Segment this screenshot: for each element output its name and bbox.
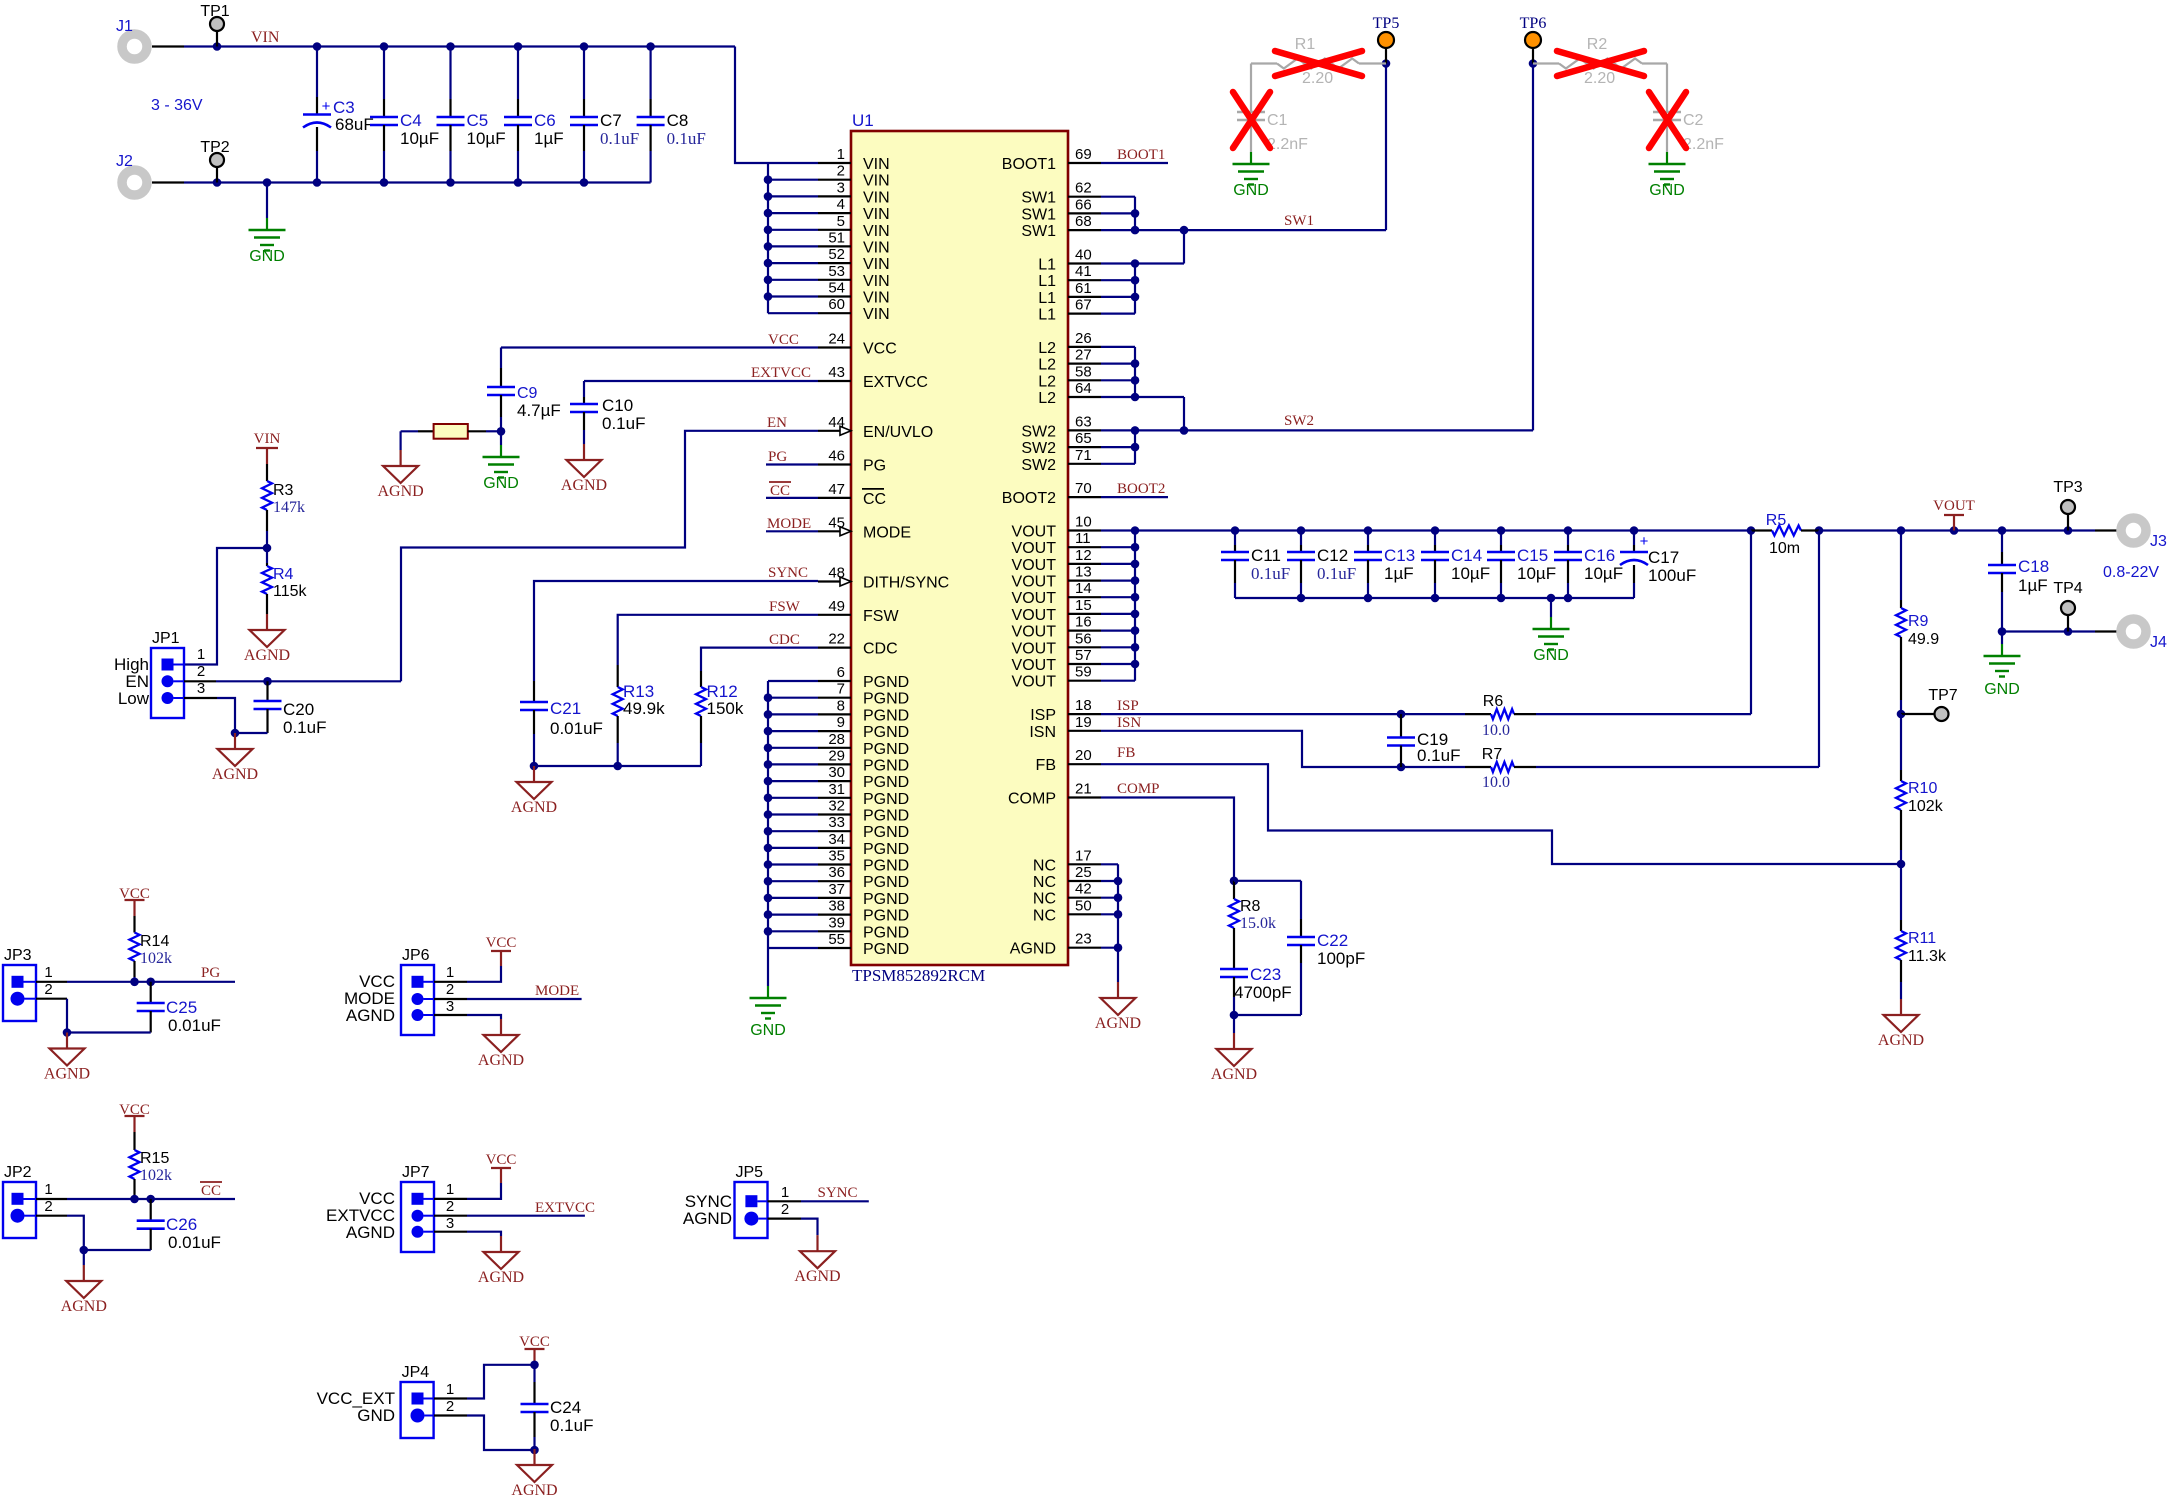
svg-text:68: 68: [1075, 213, 1092, 230]
connector JP4: [401, 1382, 434, 1438]
capacitor C12: [1300, 531, 1302, 546]
connector J4: [2121, 619, 2146, 644]
svg-text:EXTVCC: EXTVCC: [863, 374, 928, 391]
svg-text:VOUT: VOUT: [1012, 674, 1057, 691]
svg-text:MODE: MODE: [863, 524, 911, 541]
svg-text:1µF: 1µF: [2018, 576, 2048, 595]
svg-text:30: 30: [828, 764, 845, 781]
svg-text:AGND: AGND: [511, 799, 557, 816]
svg-text:0.01uF: 0.01uF: [168, 1233, 221, 1252]
wires VOUT pins to bus: [1101, 546, 1135, 548]
wire JP7 pin1 VCC: [434, 1198, 467, 1200]
svg-text:R15: R15: [140, 1150, 169, 1167]
wire PGND bus: [767, 681, 769, 948]
svg-text:VOUT: VOUT: [1012, 557, 1057, 574]
ground GND C1: [1250, 152, 1252, 164]
svg-text:VCC: VCC: [486, 935, 517, 951]
svg-text:C5: C5: [467, 111, 489, 130]
svg-text:SW1: SW1: [1021, 190, 1056, 207]
svg-text:0.1uF: 0.1uF: [283, 718, 326, 737]
svg-text:FB: FB: [1036, 757, 1056, 774]
wire divider to JP1 pin1: [184, 548, 267, 665]
svg-text:1: 1: [197, 646, 205, 663]
svg-text:2: 2: [837, 163, 845, 180]
svg-text:TP2: TP2: [200, 139, 229, 156]
svg-text:PGND: PGND: [863, 757, 909, 774]
svg-text:50: 50: [1075, 897, 1092, 914]
svg-text:0.8-22V: 0.8-22V: [2103, 564, 2159, 581]
node COMP AGND junction: [1230, 1011, 1239, 1020]
svg-text:VIN: VIN: [863, 173, 890, 190]
svg-text:2: 2: [781, 1201, 789, 1218]
wire ISP net: [1101, 713, 1465, 715]
wire EXTVCC jumper net: [434, 1215, 467, 1217]
svg-text:VOUT: VOUT: [1012, 574, 1057, 591]
wire NC bus: [1101, 863, 1118, 865]
resistor R15: [133, 1132, 135, 1150]
node VIN junction TP1: [213, 42, 222, 51]
svg-text:AGND: AGND: [346, 1223, 395, 1242]
cross-out C1: [1233, 92, 1270, 148]
svg-text:EXTVCC: EXTVCC: [535, 1200, 595, 1216]
svg-text:19: 19: [1075, 714, 1092, 731]
svg-text:52: 52: [828, 246, 845, 263]
cross-out R1: [1275, 51, 1362, 76]
svg-text:100uF: 100uF: [1648, 566, 1696, 585]
capacitor C14: [1434, 531, 1436, 546]
svg-text:0.01uF: 0.01uF: [550, 719, 603, 738]
wire SYNC jumper net: [768, 1200, 802, 1202]
svg-text:70: 70: [1075, 480, 1092, 497]
resistor R9: [1900, 600, 1902, 608]
svg-text:6: 6: [837, 664, 845, 681]
svg-text:102k: 102k: [140, 1167, 172, 1184]
svg-text:C21: C21: [550, 699, 581, 718]
svg-text:PGND: PGND: [863, 824, 909, 841]
svg-text:C7: C7: [600, 111, 622, 130]
connector JP1: [151, 648, 184, 718]
svg-text:0.1uF: 0.1uF: [1251, 564, 1290, 583]
svg-text:10µF: 10µF: [1584, 564, 1623, 583]
svg-text:TP4: TP4: [2053, 580, 2082, 597]
svg-text:AGND: AGND: [61, 1298, 107, 1315]
svg-text:NC: NC: [1033, 891, 1056, 908]
svg-text:CC: CC: [201, 1183, 221, 1199]
svg-text:R10: R10: [1908, 780, 1937, 797]
capacitor C19: [1400, 714, 1402, 737]
svg-text:36: 36: [828, 864, 845, 881]
svg-text:20: 20: [1075, 747, 1092, 764]
svg-text:VIN: VIN: [863, 156, 890, 173]
svg-text:SW2: SW2: [1021, 440, 1056, 457]
svg-text:16: 16: [1075, 614, 1092, 631]
svg-text:VOUT: VOUT: [1012, 607, 1057, 624]
svg-text:SW2: SW2: [1021, 457, 1056, 474]
svg-text:1: 1: [44, 1181, 52, 1198]
capacitor C21: [533, 681, 535, 702]
svg-text:TP3: TP3: [2053, 479, 2082, 496]
svg-text:FSW: FSW: [863, 608, 899, 625]
svg-text:PGND: PGND: [863, 691, 909, 708]
U1 pin 47 CC: [818, 497, 851, 499]
svg-text:2: 2: [44, 1198, 52, 1215]
svg-text:R11: R11: [1908, 930, 1936, 947]
svg-text:1: 1: [446, 1381, 454, 1398]
svg-text:SW1: SW1: [1021, 206, 1056, 223]
svg-text:PGND: PGND: [863, 858, 909, 875]
svg-text:EN: EN: [767, 415, 787, 431]
svg-text:21: 21: [1075, 781, 1092, 798]
capacitor C2 (DNP): [1666, 64, 1668, 113]
svg-text:69: 69: [1075, 146, 1092, 163]
svg-text:4.7µF: 4.7µF: [517, 401, 561, 420]
svg-text:JP2: JP2: [4, 1164, 32, 1181]
svg-text:7: 7: [837, 681, 845, 698]
wire MODE jumper net: [434, 998, 467, 1000]
svg-text:PGND: PGND: [863, 924, 909, 941]
resistor R14: [133, 916, 135, 933]
svg-text:11.3k: 11.3k: [1908, 948, 1947, 965]
svg-text:13: 13: [1075, 564, 1092, 581]
svg-text:VCC: VCC: [486, 1152, 517, 1168]
capacitor C6: [514, 42, 523, 51]
svg-text:J4: J4: [2150, 634, 2167, 651]
op-amp U1 TPSM852892RCM body: [851, 131, 1068, 965]
node EN divider junction: [263, 544, 272, 553]
wire SW1 bundle: [1101, 196, 1135, 198]
svg-text:L2: L2: [1038, 340, 1056, 357]
svg-text:VIN: VIN: [251, 29, 280, 46]
svg-text:EXTVCC: EXTVCC: [751, 365, 811, 381]
svg-text:1: 1: [446, 964, 454, 981]
svg-text:SW1: SW1: [1021, 223, 1056, 240]
svg-text:J1: J1: [116, 18, 133, 35]
svg-text:C18: C18: [2018, 557, 2049, 576]
svg-text:AGND: AGND: [244, 647, 290, 664]
svg-text:40: 40: [1075, 247, 1092, 264]
U1 pin 49 FSW: [818, 614, 851, 616]
svg-text:PGND: PGND: [863, 841, 909, 858]
test point TP1: [216, 31, 218, 47]
svg-text:VOUT: VOUT: [1012, 624, 1057, 641]
svg-text:0.1uF: 0.1uF: [1417, 746, 1460, 765]
resistor R11: [1900, 864, 1902, 920]
svg-text:R9: R9: [1908, 613, 1929, 630]
capacitor C24: [533, 1365, 535, 1382]
wire JP6 pin3 AGND: [434, 1014, 467, 1016]
svg-text:33: 33: [828, 814, 845, 831]
svg-text:L1: L1: [1038, 290, 1056, 307]
svg-text:68uF: 68uF: [335, 115, 374, 134]
capacitor C17: [1633, 531, 1635, 546]
ground GND C18: [2001, 632, 2003, 645]
wire JP3 pin2 AGND: [36, 998, 67, 1000]
wire CC stub: [766, 497, 818, 499]
svg-text:CDC: CDC: [769, 632, 800, 648]
node FB junction: [1897, 860, 1906, 869]
wire JP1 pin3 to AGND: [184, 697, 217, 699]
svg-text:10µF: 10µF: [1517, 564, 1556, 583]
capacitor C18: [2001, 531, 2003, 553]
U1 pin 48 DITH/SYNC: [818, 580, 851, 582]
svg-text:C23: C23: [1250, 965, 1281, 984]
ground AGND JP1: [234, 733, 236, 749]
resistor R12: [700, 671, 702, 687]
svg-text:PGND: PGND: [863, 707, 909, 724]
svg-text:3: 3: [446, 1215, 454, 1232]
svg-text:VIN: VIN: [863, 223, 890, 240]
capacitor C16: [1567, 531, 1569, 546]
svg-text:51: 51: [828, 229, 845, 246]
test point TP2: [213, 178, 222, 187]
ground AGND JP3: [66, 1033, 68, 1049]
svg-text:PG: PG: [201, 965, 220, 981]
svg-text:R2: R2: [1587, 36, 1608, 53]
wire PG jumper net: [36, 981, 67, 983]
svg-text:FSW: FSW: [769, 599, 801, 615]
svg-text:49.9: 49.9: [1908, 631, 1939, 648]
wire EXTVCC net: [584, 380, 818, 382]
svg-text:BOOT1: BOOT1: [1002, 156, 1056, 173]
svg-text:MODE: MODE: [767, 516, 811, 532]
svg-text:9: 9: [837, 714, 845, 731]
svg-text:ISN: ISN: [1029, 724, 1056, 741]
U1 VIN pins 1-60: [818, 162, 851, 164]
svg-text:R1: R1: [1295, 36, 1316, 53]
ground AGND pin23: [1117, 948, 1119, 982]
capacitor C7: [580, 42, 589, 51]
svg-text:COMP: COMP: [1008, 791, 1056, 808]
wire BOOT1 stub: [1101, 162, 1168, 164]
wire ISN net: [1101, 731, 1465, 767]
svg-text:PGND: PGND: [863, 741, 909, 758]
svg-text:0.1uF: 0.1uF: [667, 129, 706, 148]
svg-text:PGND: PGND: [863, 808, 909, 825]
svg-text:1µF: 1µF: [1384, 564, 1414, 583]
svg-text:5: 5: [837, 213, 845, 230]
svg-text:VIN: VIN: [863, 306, 890, 323]
wire COMP net: [1101, 798, 1234, 881]
wire SW1 to TP5: [1135, 229, 1386, 231]
svg-text:L1: L1: [1038, 273, 1056, 290]
svg-text:JP3: JP3: [4, 947, 32, 964]
svg-text:11: 11: [1075, 530, 1091, 547]
svg-text:55: 55: [828, 931, 845, 948]
svg-text:ISP: ISP: [1117, 698, 1139, 714]
svg-text:COMP: COMP: [1117, 781, 1160, 797]
svg-text:102k: 102k: [140, 950, 172, 967]
svg-text:GND: GND: [483, 475, 519, 492]
svg-text:54: 54: [828, 280, 845, 297]
svg-text:L1: L1: [1038, 257, 1056, 274]
svg-text:37: 37: [828, 881, 845, 898]
svg-text:VIN: VIN: [254, 431, 281, 447]
connector J2: [122, 170, 147, 195]
svg-text:VIN: VIN: [863, 206, 890, 223]
svg-text:41: 41: [1075, 263, 1092, 280]
svg-text:C15: C15: [1517, 546, 1548, 565]
junctions VIN bus: [764, 175, 773, 184]
svg-text:39: 39: [828, 914, 845, 931]
svg-text:MODE: MODE: [535, 983, 579, 999]
wire L2 bundle: [1101, 346, 1135, 348]
ground GND C9: [500, 431, 502, 445]
capacitor C1 (DNP): [1250, 64, 1252, 113]
svg-text:C4: C4: [400, 111, 422, 130]
svg-text:VOUT: VOUT: [1012, 657, 1057, 674]
svg-text:R3: R3: [273, 482, 294, 499]
svg-text:2: 2: [44, 981, 52, 998]
wire CDC net: [701, 648, 818, 671]
svg-text:56: 56: [1075, 630, 1092, 647]
svg-text:PGND: PGND: [863, 791, 909, 808]
capacitor C15: [1500, 531, 1502, 546]
svg-text:2: 2: [446, 1398, 454, 1415]
U1 right-side pins: [1068, 162, 1101, 164]
svg-text:10m: 10m: [1769, 540, 1800, 557]
test point TP4: [2067, 615, 2069, 632]
svg-text:TP5: TP5: [1373, 15, 1400, 32]
svg-text:BOOT1: BOOT1: [1117, 147, 1165, 163]
svg-text:64: 64: [1075, 380, 1092, 397]
svg-text:VCC: VCC: [519, 1334, 550, 1350]
svg-text:PGND: PGND: [863, 674, 909, 691]
svg-text:U1: U1: [852, 111, 874, 130]
svg-text:VCC: VCC: [863, 341, 897, 358]
U1 pin 24 VCC: [818, 346, 851, 348]
svg-text:VCC: VCC: [768, 332, 799, 348]
svg-text:4: 4: [837, 196, 845, 213]
svg-text:115k: 115k: [273, 583, 308, 600]
connector J3: [2121, 518, 2146, 543]
svg-text:3: 3: [446, 998, 454, 1015]
svg-text:2.20: 2.20: [1584, 70, 1615, 87]
svg-text:AGND: AGND: [683, 1209, 732, 1228]
wire FB net: [1101, 764, 1902, 864]
svg-text:AGND: AGND: [1878, 1032, 1924, 1049]
svg-text:14: 14: [1075, 580, 1092, 597]
svg-text:SYNC: SYNC: [818, 1185, 858, 1201]
wire JP2 pin2 AGND: [36, 1215, 67, 1217]
svg-text:1: 1: [446, 1181, 454, 1198]
U1 pin 22 CDC: [818, 646, 851, 648]
resistor R3: [266, 464, 268, 481]
wire CC jumper net: [36, 1198, 67, 1200]
svg-text:18: 18: [1075, 697, 1092, 714]
svg-text:15: 15: [1075, 597, 1092, 614]
svg-text:TPSM852892RCM: TPSM852892RCM: [852, 966, 985, 985]
svg-text:32: 32: [828, 798, 845, 815]
ground GND VOUT caps: [1550, 598, 1552, 617]
U1 PGND pins: [818, 680, 851, 682]
connector JP6: [401, 965, 434, 1035]
svg-text:NC: NC: [1033, 907, 1056, 924]
wire VIN rail top: [184, 45, 735, 47]
svg-text:22: 22: [828, 631, 845, 648]
svg-text:0.01uF: 0.01uF: [168, 1016, 221, 1035]
svg-text:47: 47: [828, 481, 845, 498]
svg-text:2: 2: [446, 981, 454, 998]
svg-text:AGND: AGND: [1095, 1015, 1141, 1032]
node VCC/C9 junction: [497, 427, 506, 436]
svg-text:150k: 150k: [707, 699, 744, 718]
svg-text:SW2: SW2: [1021, 423, 1056, 440]
svg-text:25: 25: [1075, 864, 1092, 881]
wire SYNC net: [534, 581, 818, 681]
capacitor C9: [500, 368, 502, 387]
svg-text:L2: L2: [1038, 390, 1056, 407]
svg-text:10.0: 10.0: [1482, 774, 1510, 791]
svg-text:4700pF: 4700pF: [1234, 983, 1292, 1002]
ground GND PGND: [767, 986, 769, 998]
svg-text:C24: C24: [550, 1398, 581, 1417]
svg-text:AGND: AGND: [794, 1268, 840, 1285]
svg-text:2: 2: [197, 663, 205, 680]
svg-text:PGND: PGND: [863, 908, 909, 925]
wire VOUT caps bottom rail: [1235, 597, 1634, 599]
ferrite bead FB1: [401, 430, 418, 432]
svg-text:10.0: 10.0: [1482, 722, 1510, 739]
svg-text:PGND: PGND: [863, 891, 909, 908]
svg-text:57: 57: [1075, 647, 1092, 664]
wire L1 bundle: [1101, 262, 1135, 264]
wire MODE stub: [766, 530, 818, 532]
wire GND rail bottom: [184, 181, 651, 183]
svg-text:100pF: 100pF: [1317, 949, 1365, 968]
ground GND C2: [1666, 152, 1668, 164]
resistor R13: [617, 665, 619, 687]
svg-text:R6: R6: [1483, 693, 1504, 710]
svg-text:GND: GND: [1984, 681, 2020, 698]
junctions VOUT rail: [1231, 526, 1240, 535]
svg-text:10µF: 10µF: [400, 129, 439, 148]
svg-text:GND: GND: [1649, 182, 1685, 199]
svg-text:63: 63: [1075, 413, 1092, 430]
svg-text:AGND: AGND: [478, 1269, 524, 1286]
svg-text:29: 29: [828, 747, 845, 764]
connector JP7: [401, 1182, 434, 1252]
capacitor C3: [313, 42, 322, 51]
ground AGND JP6: [500, 1019, 502, 1035]
wire VCC net: [501, 346, 818, 348]
svg-text:CC: CC: [770, 483, 790, 499]
svg-text:SYNC: SYNC: [768, 565, 808, 581]
ground AGND JP2: [83, 1250, 85, 1265]
svg-text:27: 27: [1075, 347, 1092, 364]
svg-text:3: 3: [837, 179, 845, 196]
ground AGND JP7: [500, 1236, 502, 1252]
svg-text:23: 23: [1075, 931, 1092, 948]
svg-text:49.9k: 49.9k: [623, 699, 665, 718]
svg-text:+: +: [322, 98, 331, 115]
svg-text:AGND: AGND: [346, 1006, 395, 1025]
wire VIN bus: [767, 163, 769, 313]
ground AGND COMP: [1233, 1015, 1235, 1033]
svg-text:VOUT: VOUT: [1012, 640, 1057, 657]
svg-text:C9: C9: [517, 385, 538, 402]
svg-text:AGND: AGND: [212, 766, 258, 783]
svg-text:1: 1: [44, 964, 52, 981]
svg-text:1: 1: [781, 1184, 789, 1201]
resistor R5: [1751, 529, 1772, 531]
svg-text:2.2nF: 2.2nF: [1683, 136, 1724, 153]
svg-text:C17: C17: [1648, 548, 1679, 567]
svg-text:R4: R4: [273, 566, 294, 583]
ground AGND JP5: [816, 1235, 818, 1251]
wire JP4 pin1 VCC: [434, 1397, 467, 1399]
svg-text:CC: CC: [863, 491, 886, 508]
svg-text:R7: R7: [1482, 746, 1503, 763]
